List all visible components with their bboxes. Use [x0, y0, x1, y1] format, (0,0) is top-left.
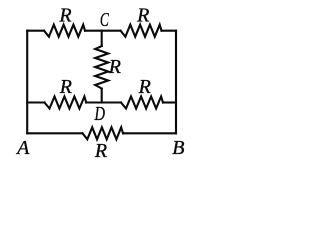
wire resistor R4 to right edge	[163, 101, 176, 103]
svg-text:R: R	[58, 4, 71, 26]
wire node A to resistor R6	[27, 132, 82, 134]
svg-text:R: R	[138, 76, 151, 98]
resistor R1 (top-left R)	[44, 25, 85, 37]
wire node C to resistor R5	[101, 31, 103, 46]
svg-text:A: A	[15, 137, 30, 159]
wire right edge (top-right corner to B)	[175, 31, 177, 134]
svg-text:R: R	[94, 140, 107, 162]
wire node C to resistor R2	[102, 30, 121, 32]
resistor R3 (middle-left R)	[45, 97, 87, 109]
wire resistor R3 to node D	[86, 101, 102, 103]
wire left edge (A to top-left corner)	[26, 31, 28, 134]
svg-text:D: D	[94, 103, 106, 125]
resistor R2 (top-right R)	[121, 25, 162, 37]
svg-text:C: C	[100, 9, 109, 31]
resistor R6 (bottom R)	[83, 127, 124, 139]
svg-text:B: B	[172, 137, 184, 159]
resistor R4 (middle-right R)	[121, 97, 163, 109]
svg-text:R: R	[136, 4, 149, 26]
wire node D to resistor R4	[102, 101, 121, 103]
wire resistor R5 to node D	[101, 89, 103, 103]
resistor R5 (vertical R between C and D)	[95, 46, 108, 89]
wire resistor R1 to node C	[85, 30, 102, 32]
wire top-left corner to resistor R1	[27, 30, 44, 32]
wire resistor R6 to node B	[123, 132, 176, 134]
wire left edge to resistor R3	[27, 101, 44, 103]
wire resistor R2 to top-right corner	[162, 30, 177, 32]
svg-text:R: R	[108, 56, 121, 78]
svg-text:R: R	[59, 76, 72, 98]
